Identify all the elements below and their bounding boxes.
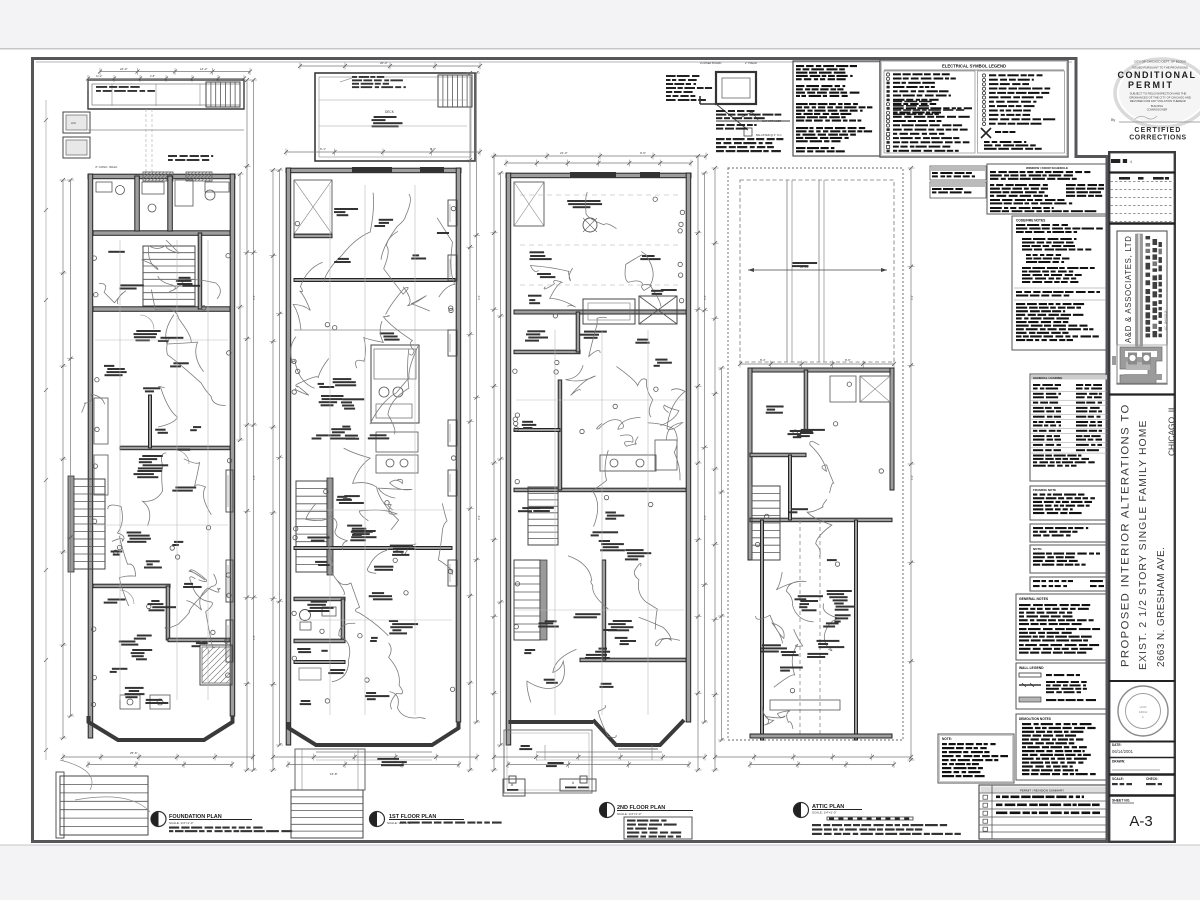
svg-text:A-3: A-3 [1129, 813, 1152, 830]
svg-text:CHECK:: CHECK: [1146, 777, 1158, 781]
svg-text:WALL LEGEND: WALL LEGEND [1019, 666, 1044, 670]
svg-text:PROPOSED INTERIOR ALTERATIONS: PROPOSED INTERIOR ALTERATIONS TO [1120, 403, 1132, 667]
title block date rows [1109, 742, 1175, 831]
svg-text:CHICAGO, IL: CHICAGO, IL [1167, 405, 1177, 456]
svg-text:#: # [572, 781, 574, 785]
svg-text:DRAWN:: DRAWN: [1112, 760, 1125, 764]
svg-text:6'-1": 6'-1" [320, 147, 326, 151]
svg-text:2'-8": 2'-8" [150, 74, 155, 78]
general notes block [1016, 594, 1106, 660]
svg-text:8'-4": 8'-4" [760, 358, 766, 362]
svg-text:A/C: A/C [71, 121, 77, 125]
second floor plan [491, 151, 709, 793]
notes column small blocks [930, 166, 986, 198]
svg-text:EXIST. 2 1/2 STORY SINGLE FAMI: EXIST. 2 1/2 STORY SINGLE FAMILY HOME [1138, 419, 1149, 670]
code compliance list [1012, 216, 1108, 350]
foundation plan [56, 67, 257, 838]
left note block [938, 734, 1014, 783]
stair detail note [666, 61, 790, 152]
svg-text:SCALE: 1/4"=1'-0": SCALE: 1/4"=1'-0" [812, 811, 836, 815]
svg-text:CONDITIONAL: CONDITIONAL [1118, 70, 1197, 80]
svg-text:DECK: DECK [385, 110, 395, 114]
svg-text:25'-6": 25'-6" [130, 751, 138, 755]
svg-text:ISSUED PURSUANT TO THE PROVISI: ISSUED PURSUANT TO THE PROVISIONS [1132, 66, 1188, 70]
top gray band [0, 0, 1200, 49]
benchmark box [503, 779, 525, 796]
first floor plan [270, 61, 483, 838]
sheet paper [31, 57, 1108, 843]
demolition notes block [1016, 714, 1106, 780]
attic plan [712, 166, 915, 772]
svg-text:4" CONC. WALK: 4" CONC. WALK [95, 165, 117, 169]
svg-text:ELECTRICAL SYMBOL LEGEND: ELECTRICAL SYMBOL LEGEND [942, 64, 1006, 69]
electrical notes block [793, 61, 880, 156]
svg-text:SCALE:: SCALE: [1112, 777, 1124, 781]
general loading table [1030, 374, 1108, 481]
svg-text:BUILDING: BUILDING [1151, 104, 1163, 108]
svg-text:CITY OF CHICAGO DEPT. OF BLDGS: CITY OF CHICAGO DEPT. OF BLDGS [1134, 60, 1186, 64]
svg-text:A&D & ASSOCIATES, LTD: A&D & ASSOCIATES, LTD [1124, 235, 1133, 343]
svg-text:11'-2": 11'-2" [96, 74, 102, 78]
svg-text:21'-3": 21'-3" [560, 151, 568, 155]
architect seal [1109, 681, 1175, 736]
first floor plan label [370, 812, 502, 827]
svg-text:REVOKED FOR ANY VIOLATION THER: REVOKED FOR ANY VIOLATION THEREOF [1130, 99, 1187, 103]
wall legend block [1016, 663, 1106, 709]
attic plan label [794, 803, 961, 836]
svg-text:24'-0": 24'-0" [120, 67, 128, 71]
architect logo block [1112, 231, 1168, 384]
svg-text:SCALE: 1/4"=1'-0": SCALE: 1/4"=1'-0" [169, 821, 193, 825]
svg-text:06/14/2001: 06/14/2001 [1112, 749, 1134, 754]
svg-text:14'-2": 14'-2" [200, 67, 208, 71]
extra annotations layer [44, 74, 914, 760]
svg-text:9'-6": 9'-6" [703, 295, 707, 300]
svg-text:DATE:: DATE: [1112, 743, 1122, 747]
svg-text:CERTIFIED: CERTIFIED [1134, 127, 1181, 134]
svg-text:9'-6": 9'-6" [252, 635, 256, 640]
svg-text:SCALE: 1/4"=1'-0": SCALE: 1/4"=1'-0" [617, 812, 641, 816]
svg-text:PERMIT / REVISION SUMMARY: PERMIT / REVISION SUMMARY [1020, 788, 1064, 792]
project title vertical text [1109, 395, 1177, 671]
svg-text:9'-6": 9'-6" [910, 295, 914, 300]
benchmark box 2 [560, 779, 596, 791]
sheet border [33, 59, 1108, 842]
svg-text:FRAMING NOTE: FRAMING NOTE [1033, 488, 1056, 492]
svg-text:8'-0": 8'-0" [845, 358, 851, 362]
framing notes blocks [1030, 486, 1108, 591]
svg-text:4: 4 [1130, 160, 1132, 164]
foundation plan label [151, 812, 292, 833]
svg-text:CODE/FIRE NOTES: CODE/FIRE NOTES [1016, 219, 1045, 223]
svg-text:WINDOW / DOOR SCHEDULE: WINDOW / DOOR SCHEDULE [1026, 166, 1068, 170]
window schedule block [987, 164, 1108, 214]
svg-text:GENERAL LOADING: GENERAL LOADING [1033, 376, 1063, 380]
electrical symbol legend [880, 60, 1068, 157]
svg-text:20'-0": 20'-0" [380, 61, 388, 65]
svg-text:9'-6": 9'-6" [477, 515, 481, 520]
conditional permit stamp [1111, 59, 1200, 142]
svg-text:PERMIT: PERMIT [1128, 80, 1174, 90]
svg-text:2" TREAD: 2" TREAD [745, 61, 757, 65]
svg-text:9'-6": 9'-6" [910, 475, 914, 480]
svg-text:CORRECTIONS: CORRECTIONS [1129, 135, 1187, 142]
svg-text:DEMOLITION NOTES: DEMOLITION NOTES [1019, 717, 1051, 721]
svg-text:9'-6": 9'-6" [477, 295, 481, 300]
svg-text:NOTE:: NOTE: [942, 737, 952, 741]
svg-text:9'-6": 9'-6" [252, 475, 256, 480]
svg-text:LICD: LICD [1140, 705, 1148, 709]
svg-text:LIC. 184-003219: LIC. 184-003219 [1164, 310, 1168, 330]
svg-text:8'-3": 8'-3" [430, 147, 436, 151]
svg-text:NOTE:: NOTE: [1033, 547, 1042, 551]
second floor plan label [600, 803, 694, 840]
svg-text:9'-6": 9'-6" [640, 151, 646, 155]
svg-text:SHEET NO.: SHEET NO. [1112, 799, 1130, 803]
svg-text:By: By [1111, 118, 1115, 122]
bottom gray band [0, 845, 1200, 900]
svg-text:ARCH: ARCH [1139, 710, 1148, 714]
svg-text:16'-8": 16'-8" [330, 772, 338, 776]
svg-text:BALUSTER @ 4" O.C.: BALUSTER @ 4" O.C. [756, 133, 782, 137]
revision/permit table bottom [979, 785, 1107, 839]
svg-text:9'-6": 9'-6" [252, 295, 256, 300]
svg-text:COMMISSIONER: COMMISSIONER [1147, 108, 1168, 112]
svg-text:2x RISER BOARD: 2x RISER BOARD [700, 61, 721, 65]
svg-text:2663 N. GRESHAM AVE.: 2663 N. GRESHAM AVE. [1156, 547, 1167, 667]
title block column [1108, 151, 1176, 843]
svg-text:GENERAL NOTES: GENERAL NOTES [1019, 597, 1049, 601]
inner border line [36, 61, 1072, 63]
svg-text:9'-6": 9'-6" [703, 515, 707, 520]
svg-text:34'-11": 34'-11" [800, 265, 809, 269]
